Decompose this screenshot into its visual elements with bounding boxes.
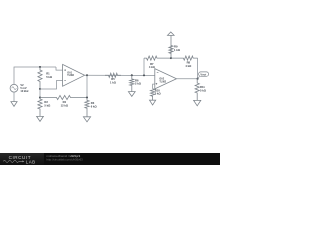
wire R8 down to output — [197, 58, 199, 79]
wire source top to opamp — [14, 67, 56, 84]
logo waveform — [3, 160, 22, 162]
output flag Vout — [198, 76, 200, 79]
svg-text:12 kΩ: 12 kΩ — [61, 104, 69, 108]
node R3/R4 — [86, 96, 88, 98]
svg-text:TL082: TL082 — [159, 81, 166, 83]
bottom watermark bar — [0, 153, 220, 166]
ground under R10 — [150, 100, 156, 105]
node R1 top — [39, 66, 41, 68]
svg-text:LAB: LAB — [26, 159, 36, 164]
OA2 - pin mark — [157, 71, 159, 73]
svg-text:5 kΩ: 5 kΩ — [46, 75, 53, 79]
svg-text:6 kΩ: 6 kΩ — [91, 105, 98, 109]
svg-text:2 kΩ: 2 kΩ — [135, 82, 142, 86]
op-amp OA2 — [155, 69, 177, 89]
node T — [170, 57, 172, 59]
resistor R2 — [38, 98, 42, 117]
power VCC arrow — [168, 32, 175, 35]
wire step to + input — [56, 67, 63, 70]
node output — [197, 78, 199, 80]
node R6 top — [131, 74, 133, 76]
ground under R11 — [194, 100, 201, 105]
OA2 + pin mark — [156, 83, 158, 85]
node feedback join — [143, 74, 145, 76]
svg-text:1 kΩ: 1 kΩ — [174, 48, 181, 52]
ground under R2 — [37, 116, 44, 121]
svg-text:4 kΩ: 4 kΩ — [185, 64, 192, 68]
resistor R6 — [130, 75, 134, 91]
resistor R10 — [151, 89, 155, 100]
svg-text:5 kΩ: 5 kΩ — [44, 104, 51, 108]
svg-text:1 kΩ: 1 kΩ — [110, 80, 117, 84]
wire + input to R10 — [153, 84, 155, 89]
resistor R11 load — [195, 79, 199, 101]
svg-text:R4: R4 — [63, 100, 67, 104]
wire OA2 output — [177, 78, 198, 80]
ground under source — [13, 92, 15, 102]
svg-text:5 kΩ: 5 kΩ — [155, 92, 162, 96]
wire to - input — [40, 81, 63, 90]
resistor R3 — [85, 98, 89, 117]
node A (R1/R2 mid) — [39, 88, 41, 90]
voltage source V2 — [10, 84, 18, 92]
wire feedback vertical left — [143, 58, 145, 75]
node B (R4 tap) — [39, 96, 41, 98]
svg-text:10 kHz: 10 kHz — [20, 89, 29, 93]
svg-text:TL082: TL082 — [67, 75, 74, 77]
wire node A down — [39, 89, 41, 98]
ground under R3 — [83, 117, 90, 122]
ground under R6 — [128, 92, 135, 97]
resistor R9 — [169, 35, 173, 58]
resistor R7 — [144, 56, 171, 60]
svg-text:OA1: OA1 — [67, 71, 72, 74]
resistor R4 — [40, 95, 87, 99]
svg-text:5 kΩ: 5 kΩ — [200, 88, 207, 92]
wire OA1 output — [85, 74, 155, 76]
wire output down — [86, 75, 88, 97]
svg-text:OA2: OA2 — [159, 78, 164, 81]
svg-text:http://circuitlab.com/c/h56z63: http://circuitlab.com/c/h56z63 — [47, 157, 84, 161]
svg-text:Vout: Vout — [200, 72, 206, 76]
OA1 + pin mark — [64, 69, 66, 71]
node OA1 out — [86, 74, 88, 76]
OA1 - pin mark — [64, 80, 66, 82]
op-amp OA1 — [63, 64, 85, 86]
resistor R8 — [171, 56, 198, 60]
resistor R1 — [38, 67, 42, 89]
resistor R5 — [105, 73, 121, 77]
